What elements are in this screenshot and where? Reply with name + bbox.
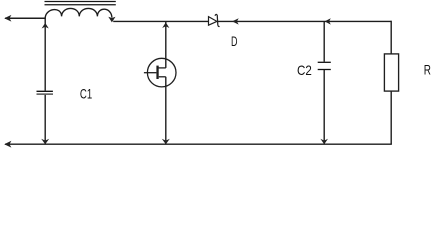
transistor Q1 gate lead xyxy=(144,72,157,74)
wire top right (diode to corner) xyxy=(218,20,391,22)
wire left vertical lower xyxy=(44,95,46,145)
arrow left at C2 junction xyxy=(325,18,331,24)
arrow left on wire after diode xyxy=(232,18,239,24)
arrow top-left xyxy=(4,15,11,22)
svg-text:C2: C2 xyxy=(297,62,312,78)
arrow down on mosfet source at rail xyxy=(162,139,170,144)
transistor Q1 mosfet circle xyxy=(147,58,176,87)
capacitor C2 plates xyxy=(318,61,331,63)
diode D triangle xyxy=(209,17,217,26)
transistor Q1 source jog xyxy=(159,76,166,78)
arrow up on mosfet drain xyxy=(162,22,169,28)
wire right branch upper xyxy=(390,21,392,54)
wire top middle (inductor to diode) xyxy=(113,20,208,22)
svg-text:C1: C1 xyxy=(80,85,92,101)
inductor L1 winding xyxy=(45,8,112,18)
wire top-left input xyxy=(5,17,45,19)
transistor Q1 drain jog xyxy=(158,67,166,69)
arrow down on left vertical at rail xyxy=(41,139,49,144)
arrow up on left vertical xyxy=(42,23,49,29)
wire bottom rail xyxy=(5,143,392,145)
wire mosfet source xyxy=(165,77,167,144)
svg-text:D: D xyxy=(231,33,238,49)
wire C2 branch upper xyxy=(323,21,325,61)
wire left vertical upper xyxy=(44,18,46,90)
inductor L1 core lines xyxy=(45,2,116,5)
resistor R box xyxy=(384,54,398,91)
transistor Q1 channel bar xyxy=(156,66,158,79)
diode D schottky cathode bar xyxy=(215,14,220,26)
wire C2 branch lower xyxy=(323,70,325,144)
wire right branch lower xyxy=(390,91,392,144)
arrow down on C2 branch at rail xyxy=(320,139,328,144)
capacitor C1 plates xyxy=(37,90,53,92)
svg-text:R: R xyxy=(424,62,431,78)
arrow bottom-left xyxy=(4,141,11,148)
inductor L1 end arrowhead xyxy=(108,17,115,23)
wire mosfet drain xyxy=(165,21,167,68)
